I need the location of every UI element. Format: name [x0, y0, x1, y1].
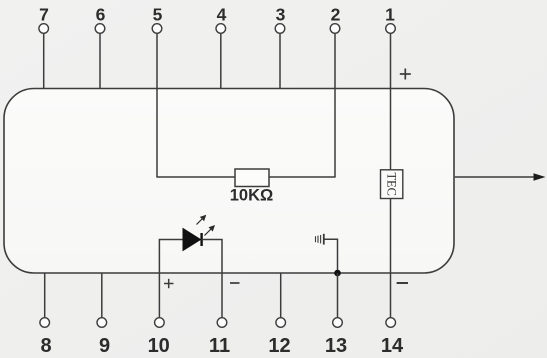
svg-text:1: 1: [385, 5, 395, 25]
pin 7 pad: [39, 24, 49, 34]
pin 1 pad: [386, 24, 396, 34]
laser diode cathode wire to pin 11: [202, 240, 222, 318]
pin 2 lead wire (runs into package to thermistor): [334, 33, 336, 177]
pin 12 pad: [276, 318, 286, 328]
TEC negative polarity mark (-) at pin 14: [397, 282, 408, 284]
laser diode cathode bar: [200, 233, 202, 246]
svg-text:6: 6: [96, 5, 106, 25]
laser diode LD (filled triangle): [183, 229, 201, 251]
light emission arrow 2: [205, 225, 216, 236]
case ground wire to pin 13 junction: [325, 239, 338, 273]
fiber output arrow: [455, 173, 546, 181]
pin 3 pad: [275, 24, 285, 34]
junction dot on pin 13 at case: [334, 270, 341, 277]
thermistor wire: resistor to pin2: [269, 176, 336, 178]
pin 13 pad: [333, 318, 343, 328]
svg-text:3: 3: [276, 5, 286, 25]
svg-text:9: 9: [99, 335, 110, 357]
svg-text:7: 7: [39, 5, 49, 25]
light emission arrow 1: [197, 215, 207, 225]
pin 14 pad: [386, 318, 396, 328]
laser diode cathode polarity mark (-): [230, 282, 240, 284]
pin 1 lead wire (TEC+ rail, runs through package to pin 14): [390, 33, 392, 317]
thermistor wire: pin5 to resistor: [156, 176, 235, 178]
TEC positive polarity mark (+) at pin 1: [400, 69, 411, 80]
svg-text:2: 2: [331, 5, 341, 25]
svg-text:10: 10: [148, 335, 170, 357]
pin 10 pad: [155, 318, 165, 328]
pin 7 lead wire: [43, 33, 45, 88]
svg-text:13: 13: [325, 335, 347, 357]
pin 12 lead wire: [280, 273, 282, 318]
pin 9 pad: [97, 318, 107, 328]
svg-text:11: 11: [209, 335, 230, 357]
case ground symbol (chassis, rotated): [316, 234, 324, 245]
svg-text:8: 8: [40, 335, 51, 357]
package body (14-pin butterfly module outline): [4, 89, 454, 274]
pin 2 pad: [330, 24, 340, 34]
pin 4 lead wire: [220, 33, 222, 88]
pin 8 lead wire: [44, 273, 46, 318]
pin 11 pad: [217, 318, 227, 328]
TEC element (box with rotated TEC text): [381, 170, 403, 199]
thermistor RT 10K ohm (box symbol): [235, 169, 269, 187]
pin 5 lead wire (runs into package to thermistor): [156, 33, 158, 177]
pin 3 lead wire: [279, 33, 281, 88]
svg-text:4: 4: [217, 5, 227, 25]
pin 8 pad: [40, 318, 50, 328]
svg-text:TEC: TEC: [385, 172, 399, 195]
pin 13 lead wire: [337, 273, 339, 318]
pin 9 lead wire: [101, 273, 103, 318]
svg-text:10KΩ: 10KΩ: [230, 187, 274, 205]
laser diode anode wire from pin 10: [159, 240, 183, 318]
svg-text:14: 14: [381, 335, 404, 357]
pin 5 pad: [152, 24, 162, 34]
pin 6 pad: [95, 24, 105, 34]
svg-text:5: 5: [153, 5, 163, 25]
laser diode anode polarity mark (+): [164, 279, 174, 288]
pin 4 pad: [216, 24, 226, 34]
pin 6 lead wire: [99, 33, 101, 88]
svg-text:12: 12: [268, 335, 290, 357]
